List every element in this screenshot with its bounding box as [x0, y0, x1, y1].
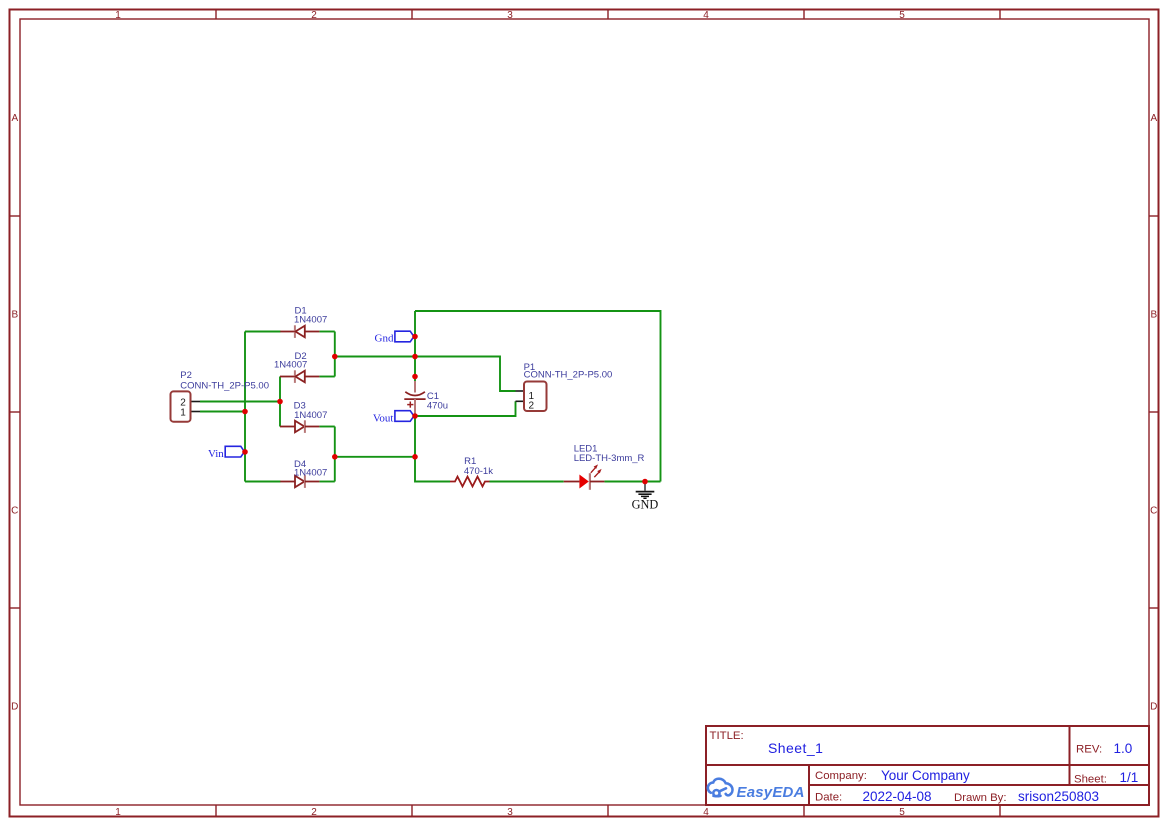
- svg-text:3: 3: [507, 807, 513, 818]
- svg-text:B: B: [11, 310, 18, 321]
- svg-text:Sheet_1: Sheet_1: [768, 740, 823, 756]
- svg-text:1N4007: 1N4007: [294, 410, 327, 421]
- net label Vout: [373, 411, 414, 425]
- wire mid vertical upper: [414, 311, 416, 382]
- svg-text:4: 4: [703, 807, 709, 818]
- junction Vin flag tip: [242, 449, 248, 455]
- label R1: [464, 456, 493, 477]
- svg-text:2: 2: [529, 400, 535, 411]
- frame row letters left: [11, 113, 18, 713]
- svg-text:1N4007: 1N4007: [294, 315, 327, 326]
- svg-text:GND: GND: [632, 497, 659, 511]
- wire mid bridge vertical: [279, 377, 281, 427]
- junction D3-D4 branch: [332, 454, 338, 460]
- connector P1: [524, 382, 547, 412]
- svg-text:A: A: [1150, 113, 1157, 124]
- pin stub P1 pin1: [516, 390, 525, 392]
- wire mid vertical lower: [415, 416, 450, 482]
- wire D4 right: [319, 481, 334, 483]
- ground GND: [632, 482, 659, 512]
- diode D4: [280, 475, 319, 488]
- title block texts: [710, 730, 1139, 804]
- label D1: [294, 306, 327, 326]
- wire row y356 to P1 pin1: [335, 357, 516, 392]
- junction Vout / C1 bottom: [412, 413, 418, 419]
- net label Gnd: [375, 331, 414, 344]
- svg-text:EasyEDA: EasyEDA: [737, 784, 805, 801]
- wire Vout row to P1 pin2: [415, 401, 516, 416]
- label D2: [274, 351, 307, 371]
- pin stub P2 pin1: [191, 411, 201, 413]
- wire bottom row right of LED: [604, 481, 660, 483]
- svg-text:1/1: 1/1: [1120, 770, 1139, 785]
- capacitor C1: [404, 381, 425, 416]
- diode D2: [280, 370, 319, 383]
- label C1: [427, 391, 448, 412]
- label LED1: [574, 444, 645, 464]
- wire bridge right vertical lower: [334, 427, 336, 482]
- svg-text:1: 1: [180, 407, 186, 418]
- label P1: [524, 362, 613, 381]
- junction P2 pin2 / D2-D3 branch: [277, 399, 283, 405]
- wire D4 left: [245, 481, 281, 483]
- pin stub P2 pin2: [191, 401, 201, 403]
- EasyEDA logo: [708, 779, 805, 801]
- svg-text:Vin: Vin: [208, 448, 224, 460]
- frame column numbers bottom: [115, 807, 905, 818]
- frame row letters right: [1150, 113, 1157, 713]
- svg-text:LED-TH-3mm_R: LED-TH-3mm_R: [574, 453, 645, 464]
- junction Gnd flag tip: [412, 334, 418, 340]
- wire P2 pin1: [200, 411, 245, 413]
- svg-text:REV:: REV:: [1076, 743, 1102, 755]
- pin stub P1 pin2: [516, 400, 525, 402]
- wire row y457: [335, 456, 415, 458]
- LED LED1: [564, 464, 605, 489]
- junction Gnd row / C1 column: [412, 354, 418, 360]
- svg-text:5: 5: [899, 807, 905, 818]
- label D4: [294, 459, 327, 479]
- svg-text:Sheet:: Sheet:: [1074, 774, 1107, 786]
- svg-text:Vout: Vout: [373, 413, 394, 425]
- diode D3: [280, 420, 319, 433]
- svg-text:CONN-TH_2P-P5.00: CONN-TH_2P-P5.00: [524, 370, 613, 381]
- label D3: [294, 401, 328, 421]
- svg-text:Date:: Date:: [815, 792, 842, 804]
- junction C1 column / bottom row: [412, 454, 418, 460]
- connector P2: [171, 391, 191, 421]
- wire P2 pin2: [200, 401, 280, 403]
- svg-text:1: 1: [115, 807, 121, 818]
- wire D1 left: [245, 331, 281, 333]
- frame column numbers top: [115, 10, 905, 21]
- svg-text:470u: 470u: [427, 400, 448, 411]
- svg-text:C: C: [1150, 506, 1157, 517]
- title block borders: [706, 726, 1149, 805]
- net label Vin: [208, 446, 244, 460]
- svg-text:D: D: [1150, 702, 1157, 713]
- svg-text:2022-04-08: 2022-04-08: [863, 789, 932, 804]
- svg-text:1N4007: 1N4007: [274, 360, 307, 371]
- svg-text:3: 3: [507, 10, 513, 21]
- label P2: [180, 370, 269, 391]
- svg-text:2: 2: [311, 10, 317, 21]
- wire top loop: [415, 311, 661, 482]
- wire bridge left vertical: [244, 332, 246, 482]
- wire D1 right: [319, 331, 334, 333]
- svg-text:470-1k: 470-1k: [464, 466, 493, 477]
- svg-text:1.0: 1.0: [1114, 741, 1133, 756]
- svg-text:Drawn By:: Drawn By:: [954, 792, 1007, 804]
- wire D3 right: [319, 426, 334, 428]
- wire D2 right: [319, 376, 334, 378]
- svg-text:Your Company: Your Company: [881, 768, 970, 783]
- svg-text:srison250803: srison250803: [1018, 789, 1099, 804]
- svg-text:1N4007: 1N4007: [294, 468, 327, 479]
- svg-text:Gnd: Gnd: [375, 333, 394, 345]
- svg-text:2: 2: [311, 807, 317, 818]
- svg-text:CONN-TH_2P-P5.00: CONN-TH_2P-P5.00: [180, 380, 269, 391]
- wire bottom row right of R1: [490, 481, 564, 483]
- junction C1 top: [412, 374, 418, 380]
- diode D1: [280, 325, 319, 338]
- svg-text:1: 1: [115, 10, 121, 21]
- svg-text:Company:: Company:: [815, 770, 867, 782]
- resistor R1: [450, 477, 490, 487]
- wire bridge right vertical upper: [334, 332, 336, 377]
- svg-text:A: A: [11, 113, 18, 124]
- junction P2 pin1 / Vin net: [242, 409, 248, 415]
- svg-text:4: 4: [703, 10, 709, 21]
- svg-text:5: 5: [899, 10, 905, 21]
- svg-text:B: B: [1150, 310, 1157, 321]
- svg-text:TITLE:: TITLE:: [710, 730, 744, 742]
- junction D1-D2 / Gnd row: [332, 354, 338, 360]
- svg-text:D: D: [11, 702, 18, 713]
- svg-text:C: C: [11, 506, 18, 517]
- junction GND tap: [642, 479, 648, 485]
